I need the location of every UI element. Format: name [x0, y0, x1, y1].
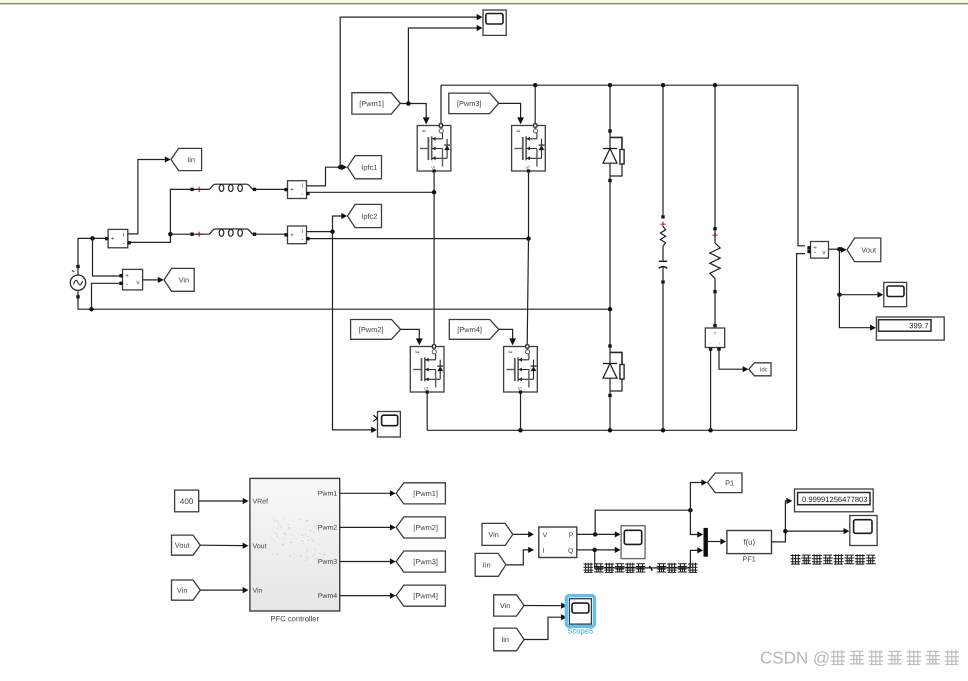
svg-text:+: +	[125, 273, 129, 280]
wire load to Idc sensor	[714, 293, 716, 324]
wire Pwm2 to gate Q2	[401, 329, 420, 340]
inductor L1	[190, 188, 193, 191]
voltmeter Vout	[811, 242, 829, 259]
wire branch to inductor L2	[170, 233, 190, 235]
wire Vin to power block	[513, 533, 530, 535]
svg-text:I: I	[543, 548, 545, 555]
svg-text:g: g	[421, 130, 427, 133]
current sensor Idc	[713, 324, 716, 327]
scope Scope2	[378, 412, 401, 438]
svg-text:-: -	[301, 236, 303, 243]
svg-text:Vin: Vin	[252, 587, 262, 595]
wire AC+ to current sensor	[78, 238, 105, 275]
wire Q3 source to phase B node	[528, 173, 530, 239]
wire to capacitor	[662, 246, 664, 261]
wire RC branch to rail	[662, 284, 664, 431]
MOSFET Q2	[410, 347, 444, 393]
svg-text:Ipfc2: Ipfc2	[361, 212, 377, 221]
wire mux to f(u)	[708, 541, 722, 543]
from tag Pwm1	[352, 93, 400, 114]
svg-text:-: -	[123, 240, 125, 247]
controller icon speckle	[288, 524, 289, 525]
function block PF1 f(u)	[727, 531, 772, 554]
wire Iin to scope5	[524, 617, 563, 639]
scope Scope3	[884, 282, 907, 306]
label power factor annotation	[791, 554, 801, 564]
goto tag Ipfc1	[348, 156, 382, 179]
svg-text:399.7: 399.7	[909, 321, 928, 330]
wire Iin signal to goto tag	[128, 160, 167, 234]
svg-text:i: i	[302, 228, 303, 235]
svg-text:Pwm3: Pwm3	[318, 559, 338, 566]
svg-text:400: 400	[180, 497, 194, 506]
wire 400 to VRef	[199, 500, 245, 502]
wire rail to output voltmeter -	[797, 254, 805, 431]
goto tag [Pwm3]	[396, 551, 445, 572]
goto tag Ipfc2	[348, 204, 382, 227]
inductor L2	[190, 233, 193, 236]
wire Ipfc2 sensor - to phase B midpoint	[310, 238, 529, 240]
svg-text:[Pwm4]: [Pwm4]	[457, 325, 482, 334]
svg-text:-: -	[301, 191, 303, 198]
wire voltmeter out to Vout tag / scope / display	[829, 248, 843, 250]
from tag Pwm2	[351, 320, 401, 340]
wire DC bus positive	[441, 84, 798, 86]
wire Ipfc1 sensor - to phase A midpoint	[310, 191, 435, 193]
svg-text:g: g	[414, 351, 420, 354]
svg-text:Ipfc1: Ipfc1	[361, 163, 377, 172]
diode D1	[608, 129, 611, 132]
wire Vout to controller	[200, 544, 244, 546]
current sensor Iin	[108, 229, 128, 247]
wire L1 to current sensor Ipfc1	[256, 188, 285, 190]
svg-text:i: i	[123, 231, 124, 238]
svg-text:Vout: Vout	[252, 543, 266, 550]
svg-text:i: i	[302, 183, 303, 190]
load resistor port	[713, 227, 716, 230]
wire P output	[577, 533, 595, 535]
constant block 400	[175, 490, 199, 512]
svg-text:Vin: Vin	[488, 530, 499, 539]
scope Scope1	[483, 10, 506, 35]
wire Idc sensor - to rail	[710, 351, 712, 431]
from tag Vin power	[482, 523, 513, 545]
capacitor C	[659, 260, 667, 262]
from tag Iin scope5	[494, 628, 524, 651]
svg-text:Idc: Idc	[760, 366, 768, 373]
wire L2 to current sensor Ipfc2	[256, 233, 285, 235]
label active reactive power annotation	[584, 563, 594, 573]
wire negative rail	[427, 429, 796, 431]
wire phase A node down to Q2 drain	[433, 192, 435, 345]
svg-text:Vout: Vout	[175, 541, 190, 550]
wire bus to RC branch	[662, 85, 664, 215]
wire Q1 source to phase A node	[433, 173, 435, 193]
svg-text:P: P	[569, 532, 574, 539]
wire controller output [Pwm1]	[340, 492, 392, 494]
current sensor Ipfc1	[288, 181, 307, 199]
wire phase B node down to Q4 drain	[527, 239, 528, 345]
svg-text:[Pwm3]: [Pwm3]	[457, 99, 482, 108]
wire tap to Vin voltmeter +	[93, 238, 120, 276]
wire controller output [Pwm3]	[340, 561, 392, 563]
svg-text:VRef: VRef	[252, 498, 268, 506]
wire bus to load resistor	[714, 85, 716, 227]
wire bus right corner to output voltmeter +	[798, 85, 805, 246]
svg-text:+: +	[713, 331, 716, 337]
wire D2 to rail	[609, 397, 611, 430]
power measurement block PQ	[539, 527, 577, 558]
goto tag Idc	[749, 363, 771, 376]
svg-text:0.99991256477803: 0.99991256477803	[802, 495, 867, 504]
scope Scope5 selected	[566, 596, 594, 627]
wire to load resistor	[714, 230, 716, 243]
wire AC- bottom bus to diode midpoint	[78, 291, 610, 310]
display block power factor	[795, 489, 874, 512]
scope Scope6	[621, 526, 645, 559]
wire Idc signal to goto	[719, 351, 745, 369]
wire bus to diode D1	[609, 85, 611, 129]
svg-text:Scope5: Scope5	[567, 626, 593, 635]
wire f(u) to display and scope4	[772, 501, 789, 542]
unconnected input marker scope2	[373, 415, 377, 421]
svg-text:i: i	[719, 341, 720, 346]
svg-text:Vin: Vin	[179, 275, 190, 284]
svg-text:[Pwm2]: [Pwm2]	[413, 523, 438, 532]
svg-text:CSDN @: CSDN @	[760, 649, 830, 668]
svg-text:Q: Q	[568, 548, 574, 555]
svg-text:g: g	[508, 351, 514, 354]
svg-text:Pwm1: Pwm1	[318, 491, 338, 498]
current sensor Ipfc2	[288, 226, 307, 244]
wire P up to P1 junction	[595, 510, 690, 534]
wire Ipfc1 signal to goto and scope	[307, 167, 344, 186]
from tag Pwm3	[449, 93, 499, 114]
svg-text:f(u): f(u)	[743, 538, 755, 547]
wire to display	[839, 295, 871, 328]
wire bus to Q1 drain	[440, 85, 442, 124]
display block 399.7	[876, 317, 944, 340]
wire D1 to neutral junction	[609, 182, 611, 345]
goto tag [Pwm1]	[396, 483, 445, 504]
goto tag P1	[708, 473, 742, 493]
svg-text:+: +	[290, 232, 294, 239]
wire Vin to scope5	[524, 605, 563, 607]
resistor R snubber	[660, 227, 665, 247]
wire current sensor - to inductors	[129, 189, 190, 242]
MOSFET Q1	[417, 126, 451, 172]
wire Pwm1 to scope input 2	[408, 28, 478, 104]
scope Scope4	[850, 516, 877, 546]
from tag Vin lower	[172, 580, 201, 600]
goto tag Iin	[171, 148, 202, 170]
top yellow toolbar edge	[0, 0, 968, 3]
wire Q to mux input 2	[595, 550, 700, 568]
mux block	[704, 528, 708, 557]
svg-text:[Pwm4]: [Pwm4]	[413, 591, 438, 600]
RC branch port	[661, 215, 664, 218]
svg-text:[Pwm1]: [Pwm1]	[359, 99, 384, 108]
MOSFET Q3	[512, 126, 546, 172]
svg-text:+: +	[111, 236, 115, 243]
wire controller output [Pwm2]	[340, 526, 392, 528]
svg-text:[Pwm1]: [Pwm1]	[413, 489, 438, 498]
voltmeter Vin	[123, 269, 143, 290]
wire bus to Q3 drain	[534, 85, 536, 124]
svg-text:g: g	[516, 130, 522, 133]
from tag Pwm4	[449, 320, 499, 340]
svg-text:[Pwm3]: [Pwm3]	[413, 557, 438, 566]
svg-text:PF1: PF1	[743, 554, 756, 563]
MOSFET Q4	[504, 347, 538, 393]
svg-text:PFC controller: PFC controller	[271, 614, 320, 623]
wire P to scope6	[595, 533, 616, 535]
diode D2	[608, 344, 611, 347]
wire P to mux input 1	[690, 510, 699, 534]
svg-text:Pwm2: Pwm2	[318, 525, 338, 532]
wire Pwm3 to gate Q3	[499, 103, 521, 119]
svg-text:Iin: Iin	[483, 560, 491, 569]
svg-text:Iin: Iin	[187, 155, 195, 164]
svg-text:Vout: Vout	[861, 245, 876, 254]
wire Ipfc2 to goto tag	[333, 216, 344, 232]
goto tag Vout	[847, 238, 881, 262]
wire to scope3	[839, 249, 879, 295]
wire branch to scope4	[785, 530, 845, 532]
wire Iin to power block	[506, 550, 530, 565]
wire Q2 source to rail	[426, 394, 428, 431]
resistor R load	[710, 243, 720, 279]
svg-text:Vin: Vin	[500, 601, 511, 610]
from tag Iin power	[475, 553, 506, 576]
wire voltmeter to Vin goto	[143, 279, 160, 281]
wire Q to scope6	[595, 549, 617, 551]
wire Ipfc2 down to scope2	[333, 232, 373, 430]
wire Vin to controller	[200, 589, 244, 591]
wire to goto P1	[690, 483, 703, 511]
svg-text:Iin: Iin	[501, 635, 509, 644]
svg-text:Pwm4: Pwm4	[318, 593, 338, 600]
svg-text:+: +	[290, 187, 294, 194]
wire Pwm1 to gate Q1	[400, 104, 426, 120]
goto tag [Pwm4]	[396, 585, 445, 606]
svg-text:V: V	[543, 532, 548, 539]
wire Ipfc2 signal junction	[307, 231, 333, 233]
wire Ipfc1 to scope input 1	[340, 17, 478, 167]
svg-text:P1: P1	[725, 478, 734, 487]
svg-text:[Pwm2]: [Pwm2]	[359, 325, 384, 334]
wire controller output [Pwm4]	[340, 595, 392, 597]
svg-text:Vin: Vin	[177, 586, 188, 595]
from tag Vin scope5	[494, 595, 524, 616]
goto tag [Pwm2]	[396, 517, 445, 538]
wire Pwm4 to gate Q4	[499, 329, 513, 340]
wire Q4 source to rail	[520, 394, 522, 431]
wire Q output	[577, 549, 595, 551]
from tag Vout lower	[172, 535, 201, 555]
subsystem PFC controller	[250, 478, 340, 611]
goto tag Vin	[164, 268, 194, 291]
wire tap to Vin voltmeter -	[92, 283, 120, 309]
AC source V1	[70, 275, 85, 290]
